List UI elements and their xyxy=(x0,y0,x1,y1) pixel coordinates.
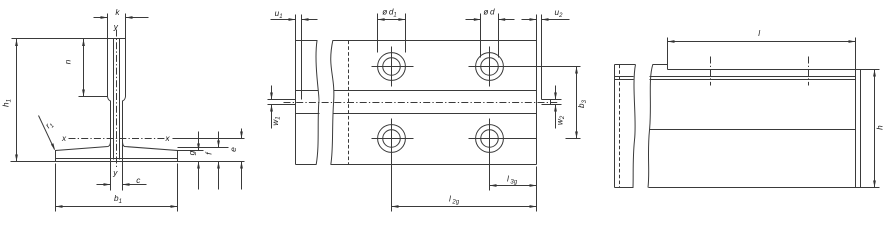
dimension b1 line xyxy=(56,206,178,208)
mounting hole bottom-left xyxy=(378,125,406,153)
svg-text:c: c xyxy=(136,176,140,185)
stem inner ground lines xyxy=(113,39,115,160)
plan view: hidden joint line xyxy=(348,41,350,165)
side view: grinding step xyxy=(667,65,669,70)
svg-text:h: h xyxy=(875,125,884,130)
svg-text:x: x xyxy=(61,134,67,143)
svg-text:u2: u2 xyxy=(555,8,564,19)
left joint tongue xyxy=(268,99,296,101)
plan view: break line right xyxy=(331,41,334,165)
dimension l2 hole extension xyxy=(391,159,393,212)
dimension h extension lines xyxy=(856,69,880,71)
dimension b1 extension lines xyxy=(55,164,57,212)
svg-text:l: l xyxy=(758,29,760,38)
side view: raw right end face xyxy=(860,70,862,188)
dimension c line xyxy=(97,184,111,186)
dimension l3 line xyxy=(490,185,537,187)
svg-text:k: k xyxy=(115,8,120,17)
side view: body break line xyxy=(648,65,653,188)
dimension l line xyxy=(668,41,856,43)
side view: machined top surface xyxy=(668,69,856,71)
side view: head lower edge double line xyxy=(650,76,856,78)
leader r1 xyxy=(39,116,55,150)
svg-text:y: y xyxy=(113,23,119,32)
side view: strip break line xyxy=(633,65,636,188)
dimension h1 line xyxy=(16,39,18,162)
mounting hole bottom-right xyxy=(476,125,504,153)
plan view: head edge upper xyxy=(296,90,319,92)
dimension n extension line xyxy=(79,96,108,98)
flange bottom edge xyxy=(56,158,178,160)
dimension l2 line xyxy=(392,206,537,208)
svg-text:l2g: l2g xyxy=(449,195,460,206)
side view: body right end xyxy=(855,70,857,188)
dimension w1 line xyxy=(271,86,273,100)
dimension b3 line xyxy=(576,67,578,139)
svg-text:w1: w1 xyxy=(271,116,282,125)
dimension u2 line xyxy=(522,19,537,21)
dimension w2 line xyxy=(555,86,557,100)
side view: strip bottom xyxy=(615,187,634,189)
plan view: left raw end edge xyxy=(301,41,303,100)
svg-text:y: y xyxy=(112,169,118,178)
dimension k line xyxy=(94,17,108,19)
plan view: left end face xyxy=(295,41,297,165)
dimension e line xyxy=(241,129,243,139)
svg-text:g: g xyxy=(187,150,197,155)
dimension u1 line xyxy=(271,19,296,21)
right joint tongue xyxy=(542,99,562,101)
svg-text:h1: h1 xyxy=(2,99,13,107)
dimension phi-d line xyxy=(466,19,481,21)
rail cross-section profile outline xyxy=(108,39,111,162)
svg-text:b1: b1 xyxy=(114,194,122,205)
plan view: break line left xyxy=(316,41,319,165)
svg-text:f: f xyxy=(204,151,214,155)
svg-text:ø d1: ø d1 xyxy=(382,8,397,19)
left view: rail cross-section top edge and h1 extension line xyxy=(12,38,126,40)
svg-text:l3g: l3g xyxy=(507,175,518,186)
plan view: rail top edge xyxy=(296,40,318,42)
dimension e reference line xyxy=(173,138,245,140)
side view: flange top edge xyxy=(650,129,856,131)
plan view: centerline xyxy=(284,102,559,104)
svg-text:b3: b3 xyxy=(577,99,588,108)
side view: body bottom edge xyxy=(649,187,861,189)
svg-text:ø d: ø d xyxy=(483,8,495,17)
plan view: right raw end face xyxy=(541,41,543,100)
mounting hole top-right xyxy=(476,53,504,81)
dimension phi-d1 line xyxy=(378,19,406,21)
dimension n line xyxy=(83,39,85,97)
svg-text:x: x xyxy=(164,134,170,143)
dimension l3 hole extension xyxy=(489,159,491,191)
side view: hole position mark 2 xyxy=(808,57,810,86)
dimension k extension lines xyxy=(107,14,109,39)
dimension l extension lines xyxy=(667,38,669,65)
svg-text:e: e xyxy=(228,147,238,152)
dimension u2 extension lines xyxy=(536,15,538,41)
plan view: rail bottom edge xyxy=(296,164,317,166)
dimension c extension lines xyxy=(110,162,112,191)
dimension g line xyxy=(198,132,200,151)
dimension phi-d extension lines xyxy=(480,14,482,58)
svg-text:n: n xyxy=(64,59,73,64)
side view: hole position mark 1 xyxy=(710,57,712,86)
side view: strip left edge xyxy=(614,65,616,188)
side view: strip head lines xyxy=(615,76,634,78)
left view: profile bottom line with extensions xyxy=(11,161,245,163)
dimension f line xyxy=(218,132,220,148)
dimension h line xyxy=(874,70,876,188)
svg-text:u1: u1 xyxy=(275,9,283,20)
side view: raw stub top xyxy=(653,64,668,66)
dimension g reference line xyxy=(178,150,204,152)
side view: strip hidden joint xyxy=(619,65,621,188)
dimension phi-d1 extension lines xyxy=(377,14,379,53)
dimension u1 extension lines xyxy=(295,15,297,41)
mounting hole top-left xyxy=(378,53,406,81)
plan view: head edge lower xyxy=(296,113,320,115)
centerline y-y vertical xyxy=(116,30,118,168)
plan view: right body end edge xyxy=(536,41,538,165)
dimension l3 extension line xyxy=(536,167,538,212)
side view: strip top xyxy=(615,64,636,66)
centerline x-x horizontal xyxy=(69,138,169,140)
dimension f reference line xyxy=(178,147,229,149)
svg-text:w2: w2 xyxy=(555,115,566,125)
